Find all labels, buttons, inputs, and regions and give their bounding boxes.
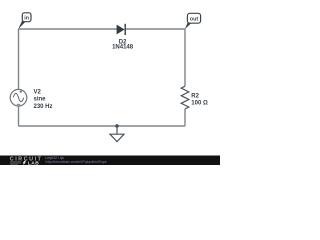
voltage source plus sign: [20, 91, 22, 93]
watermark logo bolt: [23, 161, 27, 165]
svg-text:R2: R2: [191, 94, 199, 100]
ground junction dot: [115, 124, 119, 128]
resistor R2 zigzag: [181, 86, 189, 109]
svg-text:230 Hz: 230 Hz: [34, 104, 53, 110]
svg-text:1N4148: 1N4148: [112, 45, 134, 51]
node flag in tail: [18, 21, 25, 29]
svg-text:sine: sine: [34, 97, 47, 103]
watermark bar background: [0, 156, 220, 166]
ground symbol triangle: [110, 134, 124, 141]
node flag out box: [187, 13, 200, 23]
svg-text:http:∕∕circuitlab.com∕c5Tqbpkb: http:∕∕circuitlab.com∕c5TqbpkboShyz: [45, 159, 106, 164]
wire top horizontal (diode cathode to out corner): [125, 28, 185, 30]
wire left vertical (V2 bottom to bottom wire): [18, 106, 20, 126]
wire right vertical (R2 bottom to bottom wire): [184, 109, 186, 126]
voltage source V2 circle: [10, 89, 27, 106]
wire bottom horizontal: [19, 125, 186, 127]
diode D2 symbol: [117, 24, 126, 35]
svg-text:LAB: LAB: [28, 160, 39, 165]
svg-text:out: out: [190, 17, 199, 23]
wire top horizontal (left segment to diode anode): [19, 28, 117, 30]
voltage source sine wave: [13, 93, 23, 101]
wire right vertical (out corner to R2 top): [184, 29, 186, 86]
node flag out tail: [185, 22, 191, 29]
voltage source minus sign: [17, 103, 20, 105]
svg-text:V2: V2: [34, 89, 42, 95]
svg-text:in: in: [24, 16, 29, 22]
watermark logo lines: [10, 162, 21, 164]
svg-text:100 Ω: 100 Ω: [191, 100, 208, 106]
wire left vertical (in corner to V2 top): [18, 29, 20, 90]
ground stub wire: [116, 126, 118, 134]
node flag in box: [22, 13, 31, 22]
